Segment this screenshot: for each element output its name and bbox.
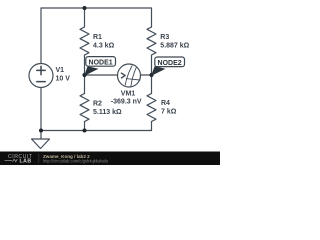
svg-text:7 kΩ: 7 kΩ — [161, 108, 177, 115]
wire voltmeter to node B — [141, 74, 152, 76]
wire node A to voltmeter — [85, 74, 118, 76]
svg-text:LAB: LAB — [20, 159, 32, 165]
wire R1 bottom lead to node A — [84, 55, 86, 75]
junction node top — [83, 6, 87, 10]
watermark footer bar — [0, 152, 220, 166]
NODE1 flag pointer — [84, 66, 99, 76]
resistor R1 — [80, 27, 89, 55]
svg-text:5.113 kΩ: 5.113 kΩ — [93, 109, 122, 116]
svg-text:VM1: VM1 — [121, 91, 136, 98]
wire bottom rail — [41, 130, 152, 132]
wire R3 bottom lead to node B — [151, 55, 153, 75]
NODE1 flag box — [86, 57, 116, 67]
svg-text:4.3 kΩ: 4.3 kΩ — [93, 42, 115, 49]
svg-text:R1: R1 — [93, 34, 102, 41]
wire top rail — [41, 8, 152, 64]
svg-text:http://circuitlab.com/c/gsh4qk: http://circuitlab.com/c/gsh4qkkuhafu — [43, 158, 108, 163]
svg-text:NODE2: NODE2 — [158, 60, 182, 67]
svg-text:5.887 kΩ: 5.887 kΩ — [160, 43, 189, 50]
NODE2 flag box — [155, 57, 185, 67]
ground — [32, 131, 50, 149]
voltage source V1 — [29, 64, 53, 88]
wire V1 bottom to ground rail — [40, 88, 42, 131]
node B (NODE2 junction) — [149, 73, 153, 77]
voltmeter V chevron — [121, 73, 125, 78]
resistor R4 — [147, 94, 156, 122]
wire R4 bottom lead — [151, 122, 153, 131]
wire R2 bottom lead — [84, 122, 86, 131]
junction node bottom left — [39, 129, 43, 133]
node A (NODE1 junction) — [82, 73, 86, 77]
svg-text:R3: R3 — [160, 34, 169, 41]
junction node bottom R2 — [83, 129, 87, 133]
svg-text:R2: R2 — [93, 100, 102, 107]
wire R1 top lead — [84, 8, 86, 27]
resistor R3 — [147, 27, 156, 55]
svg-text:R4: R4 — [161, 100, 170, 107]
voltmeter VM1 — [118, 64, 141, 87]
svg-text:10 V: 10 V — [56, 75, 71, 82]
svg-text:V1: V1 — [56, 67, 65, 74]
svg-text:NODE1: NODE1 — [89, 59, 113, 66]
NODE2 flag pointer — [151, 66, 166, 76]
wire R4 top lead — [151, 75, 153, 94]
CircuitLab logo — [5, 154, 39, 165]
V1 polarity marks — [37, 66, 45, 81]
wire R2 top lead — [84, 75, 86, 94]
svg-text:-369.3 nV: -369.3 nV — [111, 99, 142, 106]
resistor R2 — [80, 94, 89, 122]
